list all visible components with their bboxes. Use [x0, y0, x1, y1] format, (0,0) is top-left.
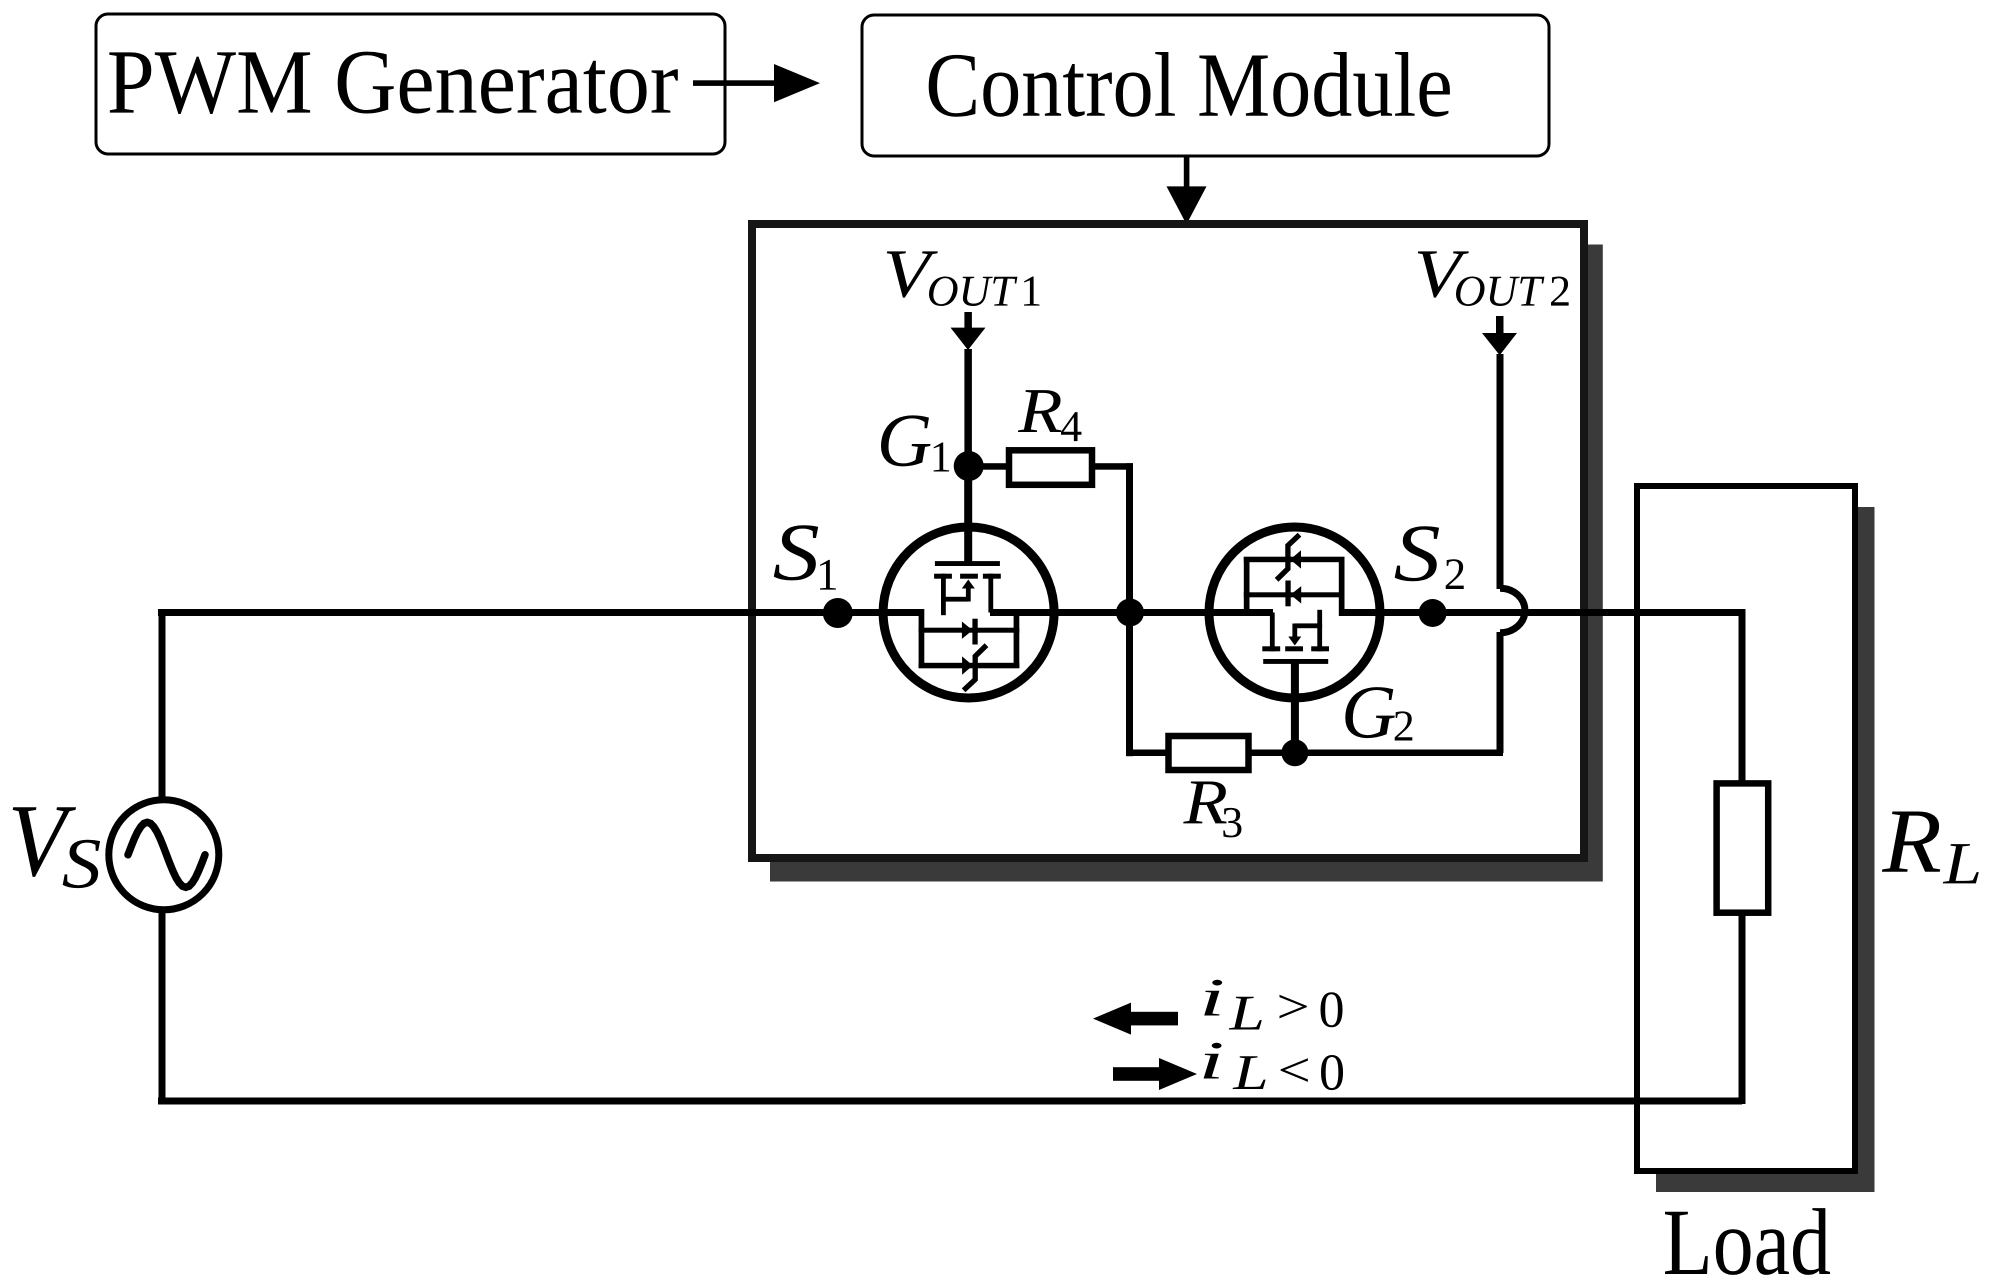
power module shadow: [770, 245, 1603, 882]
wire runner elbow to R3: [1126, 750, 1170, 757]
label G2: [1345, 687, 1395, 738]
wire G1 to R4: [968, 463, 1011, 470]
arrow PWM to Control: [693, 80, 776, 86]
node G2: [1281, 739, 1308, 766]
transistor M2 (M1 rotated 180deg): [1209, 527, 1380, 759]
wire VS vertical lower: [159, 908, 166, 1101]
arrow VOUT1: [964, 312, 972, 330]
node junction between M1 and M2: [1116, 599, 1144, 627]
source VS circle: [109, 800, 219, 910]
resistor RL: [1717, 783, 1769, 912]
label R3: [1183, 781, 1227, 823]
arrow VOUT2: [1482, 333, 1517, 355]
transistor M1 (bidirectional MOSFET switch): [883, 466, 1054, 698]
wire VOUT2 riser below hop: [1497, 632, 1504, 753]
label iL<0: [1204, 1043, 1222, 1079]
load box shadow: [1656, 507, 1875, 1192]
block PWM Generator: [96, 14, 725, 154]
label VOUT1: [887, 251, 938, 297]
wire VS vertical upper: [159, 609, 166, 801]
arrow Control Module to power module: [1184, 156, 1190, 189]
label VOUT2: [1418, 251, 1469, 297]
wire main horizontal M1 drain to M2 drain: [990, 609, 1273, 616]
label Control Module: [929, 52, 1450, 117]
power module box: [752, 224, 1584, 858]
label PWM Generator: [109, 52, 678, 114]
label R4: [1018, 390, 1061, 432]
wire VOUT1 to G1: [964, 349, 972, 467]
source VS sine: [128, 822, 205, 887]
arrow iL<0 (rightward): [1113, 1067, 1163, 1081]
wire load vertical upper: [1739, 609, 1746, 786]
wire R3 to G2 to VOUT2 riser: [1248, 750, 1503, 757]
load box: [1637, 486, 1855, 1171]
label S1: [774, 525, 818, 580]
wire hop over main wire: [1500, 588, 1525, 633]
block Control Module: [862, 15, 1549, 156]
wire main horizontal M2 source to load bend: [1341, 609, 1746, 616]
wire bottom return: [158, 1098, 1742, 1105]
node G1: [954, 451, 984, 481]
wire runner R4 down to R3: [1126, 463, 1133, 756]
arrow iL>0 (leftward): [1128, 1012, 1178, 1026]
resistor R4: [1009, 450, 1092, 485]
label G1: [881, 415, 931, 466]
wire R4 to runner: [1092, 463, 1133, 470]
resistor R3: [1169, 736, 1249, 770]
node S2: [1419, 599, 1447, 627]
label Load: [1665, 1208, 1830, 1275]
wire VOUT2 riser above hop: [1497, 354, 1504, 589]
label iL>0: [1204, 980, 1222, 1016]
label RL: [1882, 812, 1940, 872]
wire load vertical lower: [1739, 910, 1746, 1104]
node S1: [823, 598, 853, 628]
wire main horizontal from VS to M1: [158, 609, 924, 616]
label S2: [1395, 526, 1439, 581]
label VS: [13, 807, 76, 877]
